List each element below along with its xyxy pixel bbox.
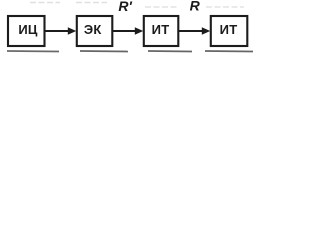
svg-text:ЭК: ЭК [84, 22, 102, 37]
wire arrow 3 (ИТ to ИТ) [179, 30, 204, 32]
wire arrow 2 (ЭК to ИТ) [113, 30, 137, 32]
wire arrow 1 (ИЦ to ЭК) [45, 30, 70, 32]
svg-text:R′: R′ [118, 0, 132, 14]
scan artifact line segment 4 [205, 50, 253, 53]
background [0, 0, 256, 58]
faint cropped-text artifact top 4 [206, 6, 244, 8]
block ИЦ [8, 16, 45, 46]
scan artifact line segment 1 [7, 50, 59, 53]
faint cropped-text artifact top 1 [30, 2, 60, 4]
svg-text:ИЦ: ИЦ [18, 22, 38, 37]
svg-text:ИТ: ИТ [220, 22, 238, 37]
block ИТ (first) [144, 16, 179, 46]
svg-text:ИТ: ИТ [152, 22, 170, 37]
scan artifact line segment 3 [148, 50, 192, 53]
scan artifact line segment 2 [80, 50, 128, 53]
faint cropped-text artifact top 2 [76, 2, 107, 4]
svg-text:R: R [190, 0, 201, 14]
block ИТ (second) [211, 16, 248, 46]
faint cropped-text artifact top 3 [145, 6, 178, 8]
block ЭК [77, 16, 113, 46]
